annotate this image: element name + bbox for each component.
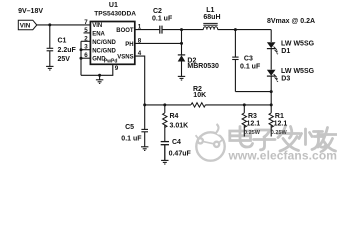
svg-text:D1: D1: [281, 48, 290, 55]
wire under IC to pin 9: [81, 64, 113, 75]
svg-text:C3: C3: [244, 55, 253, 62]
ground (D2): [178, 76, 185, 80]
resistor R1 12.1: [270, 105, 272, 113]
svg-text:12.1: 12.1: [247, 121, 261, 128]
svg-text:C5: C5: [125, 124, 134, 131]
wire VIN to pin7: [37, 24, 91, 26]
capacitor C2: [160, 26, 162, 34]
svg-text:LW W5SG: LW W5SG: [281, 68, 315, 75]
wire L1 to output: [218, 29, 272, 31]
svg-text:PH: PH: [125, 42, 133, 48]
ground (C5): [141, 147, 148, 151]
svg-text:4: 4: [138, 50, 142, 57]
svg-text:68uH: 68uH: [203, 14, 220, 21]
svg-text:9V–18V: 9V–18V: [18, 8, 43, 15]
ground (C1): [46, 66, 53, 70]
watermark chinese char zi: [254, 130, 276, 150]
svg-text:L1: L1: [206, 7, 214, 14]
wire output down to D1: [270, 30, 272, 42]
svg-text:PwPd: PwPd: [104, 59, 118, 65]
svg-text:VIN: VIN: [92, 23, 102, 29]
svg-text:U1: U1: [109, 2, 118, 9]
svg-text:R1: R1: [275, 113, 284, 120]
wire D3 down to sense node: [270, 76, 272, 105]
svg-text:12.1: 12.1: [274, 121, 288, 128]
svg-text:8: 8: [138, 37, 142, 44]
svg-text:www.elecfans.com: www.elecfans.com: [228, 149, 337, 163]
svg-text:VIN: VIN: [20, 22, 31, 29]
pin 4 VSNS wire: [135, 56, 145, 105]
capacitor C5: [141, 105, 148, 147]
svg-text:10K: 10K: [193, 92, 206, 99]
watermark chinese char fa: [278, 126, 300, 151]
pin 2 NC/GND: [81, 40, 90, 42]
watermark logo circle: [196, 132, 225, 160]
svg-text:5: 5: [84, 27, 88, 34]
pin 3 NC/GND: [81, 49, 90, 51]
svg-text:6: 6: [84, 52, 88, 59]
LED D3: [267, 70, 278, 82]
svg-text:1: 1: [138, 24, 142, 31]
svg-text:ENA: ENA: [92, 32, 105, 38]
svg-text:3.01K: 3.01K: [170, 123, 189, 130]
capacitor C1: [47, 25, 54, 66]
svg-text:TPS5430DDA: TPS5430DDA: [94, 11, 136, 18]
svg-text:2: 2: [84, 35, 88, 42]
svg-text:D3: D3: [281, 76, 290, 83]
feedback rail: [145, 104, 191, 106]
svg-text:0.25W: 0.25W: [244, 130, 261, 136]
VIN input tag: [18, 20, 37, 30]
svg-text:NC/GND: NC/GND: [92, 40, 116, 46]
svg-text:0.1 uF: 0.1 uF: [152, 15, 173, 22]
svg-text:2.2uF: 2.2uF: [58, 47, 77, 54]
node C3 bottom junction: [270, 90, 273, 93]
svg-text:R4: R4: [170, 113, 179, 120]
watermark notch hook: [215, 125, 224, 134]
wire D1 to D3: [270, 49, 272, 70]
wire tie pins 2,3,6: [80, 41, 82, 75]
resistor R3 12.1: [243, 105, 245, 113]
svg-text:C2: C2: [153, 8, 162, 15]
watermark chinese char shao: [299, 129, 325, 150]
watermark chinese char dian: [230, 127, 253, 148]
svg-text:MBR0530: MBR0530: [187, 63, 219, 70]
svg-text:C4: C4: [172, 139, 181, 146]
wire PH node down to D2: [181, 30, 183, 55]
ground (IC): [96, 75, 103, 83]
LED D1: [267, 42, 278, 54]
wire C2 to L1: [162, 29, 203, 31]
svg-text:LW W5SG: LW W5SG: [281, 40, 315, 47]
capacitor C3: [232, 30, 271, 92]
svg-text:R3: R3: [248, 113, 257, 120]
watermark chinese char you: [318, 128, 337, 153]
svg-text:25V: 25V: [58, 56, 71, 63]
pin 6 GND: [81, 57, 90, 59]
pin 8 PH wire: [135, 42, 182, 44]
svg-text:0.47uF: 0.47uF: [169, 150, 192, 157]
svg-text:9: 9: [115, 65, 119, 72]
svg-text:3: 3: [84, 44, 88, 51]
ground (C4): [161, 160, 168, 164]
pin 1 BOOT wire: [135, 29, 160, 31]
pin 5 ENA: [84, 32, 91, 34]
svg-text:0.1 uF: 0.1 uF: [240, 63, 261, 70]
svg-text:8Vmax @ 0.2A: 8Vmax @ 0.2A: [267, 18, 315, 25]
op IC U1 TPS5430DDA box: [90, 22, 134, 65]
svg-text:VSNS: VSNS: [117, 55, 133, 61]
node C1 junction: [48, 23, 51, 26]
svg-text:BOOT: BOOT: [116, 28, 134, 34]
svg-text:0.1 uF: 0.1 uF: [121, 135, 142, 142]
node PH/BOOT junction: [180, 28, 183, 31]
svg-text:7: 7: [84, 19, 88, 26]
svg-text:0.25W: 0.25W: [271, 130, 288, 136]
svg-text:NC/GND: NC/GND: [92, 48, 116, 54]
capacitor C4: [161, 142, 169, 161]
node C3 junction: [234, 28, 237, 31]
diode D2 MBR0530: [178, 55, 186, 76]
svg-text:C1: C1: [58, 37, 67, 44]
node ground junction: [98, 74, 101, 77]
resistor R4 3.01K: [164, 105, 166, 113]
